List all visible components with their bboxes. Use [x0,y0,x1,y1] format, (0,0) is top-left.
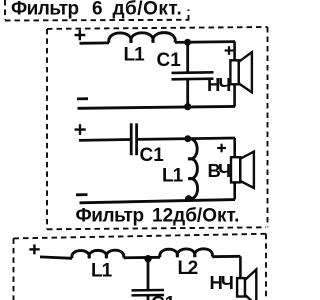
wire: below capacitor (cut off) [147,295,150,300]
svg-text:C1: C1 [151,294,176,300]
box: 6dB filter enclosure (partial, cut off at top) [5,0,189,21]
junction node bottom [185,195,192,202]
wire: junction down to capacitor [147,259,150,290]
wire: junction down to capacitor [186,42,189,72]
inductor L1 [72,250,124,258]
svg-text:L1: L1 [162,166,184,187]
label plus at speaker [217,144,226,153]
speaker НЧ (driver + cone) [230,52,252,92]
svg-text:C1: C1 [157,50,182,71]
svg-text:6: 6 [92,0,103,20]
caption: Фильтр 12дб/Окт. [76,206,240,227]
svg-text:НЧ: НЧ [210,272,233,293]
wire: rail left [40,257,72,258]
svg-text:дб/Окт.: дб/Окт. [113,0,183,20]
wire: speaker feed bottom [233,181,236,199]
inductor L2 [160,249,213,258]
wire: L1 to junction [124,256,160,259]
wire: speaker feed [239,256,242,279]
plus terminal [75,30,86,41]
minus terminal [77,97,88,100]
svg-text:L1: L1 [91,261,113,282]
plus terminal [75,124,86,135]
capacitor C1 (shunt) [132,290,165,295]
svg-text:L1: L1 [124,44,146,65]
svg-text:L2: L2 [178,258,198,279]
svg-text:12дб/Окт.: 12дб/Окт. [152,206,239,227]
wire: capacitor to junction to speaker [138,138,235,139]
svg-text:Фильтр: Фильтр [11,0,79,20]
capacitor C1 (shunt) [172,72,214,79]
wire: bottom rail [80,200,236,203]
speaker НЧ (driver + cone, cut off at bottom) [237,270,256,300]
wire: speaker feed top [233,138,236,158]
wire: speaker feed bottom [233,84,236,107]
svg-text:C1: C1 [140,145,165,166]
box: 18dB filter enclosure (partial, cut off at bottom) [14,234,267,300]
plus terminal [29,244,39,254]
junction node bottom [184,103,191,110]
label plus at speaker [225,46,234,55]
wire: top rail left [79,138,130,142]
capacitor C1 (series) [131,123,136,155]
svg-text:НЧ: НЧ [207,74,230,95]
box: 12dB filter enclosure [47,27,268,229]
wire: speaker feed top [233,42,236,61]
inductor L1 (vertical, shunt) [188,139,198,199]
minus terminal [76,193,88,196]
junction node top [184,39,191,46]
wire: capacitor to bottom rail [186,79,189,108]
wire: L1 to junction to speaker [175,40,235,44]
speaker ВЧ (driver + cone) [231,152,254,188]
inductor L1 [109,33,175,43]
junction node [144,255,151,262]
svg-text:ВЧ: ВЧ [208,160,231,181]
wire: bottom rail [78,106,236,108]
junction node top [184,135,191,142]
wire: L2 to speaker [212,255,240,258]
caption: Фильтр 6 дб/Окт. [11,0,182,20]
svg-text:Фильтр: Фильтр [76,206,144,227]
wire: top rail left [80,41,110,44]
